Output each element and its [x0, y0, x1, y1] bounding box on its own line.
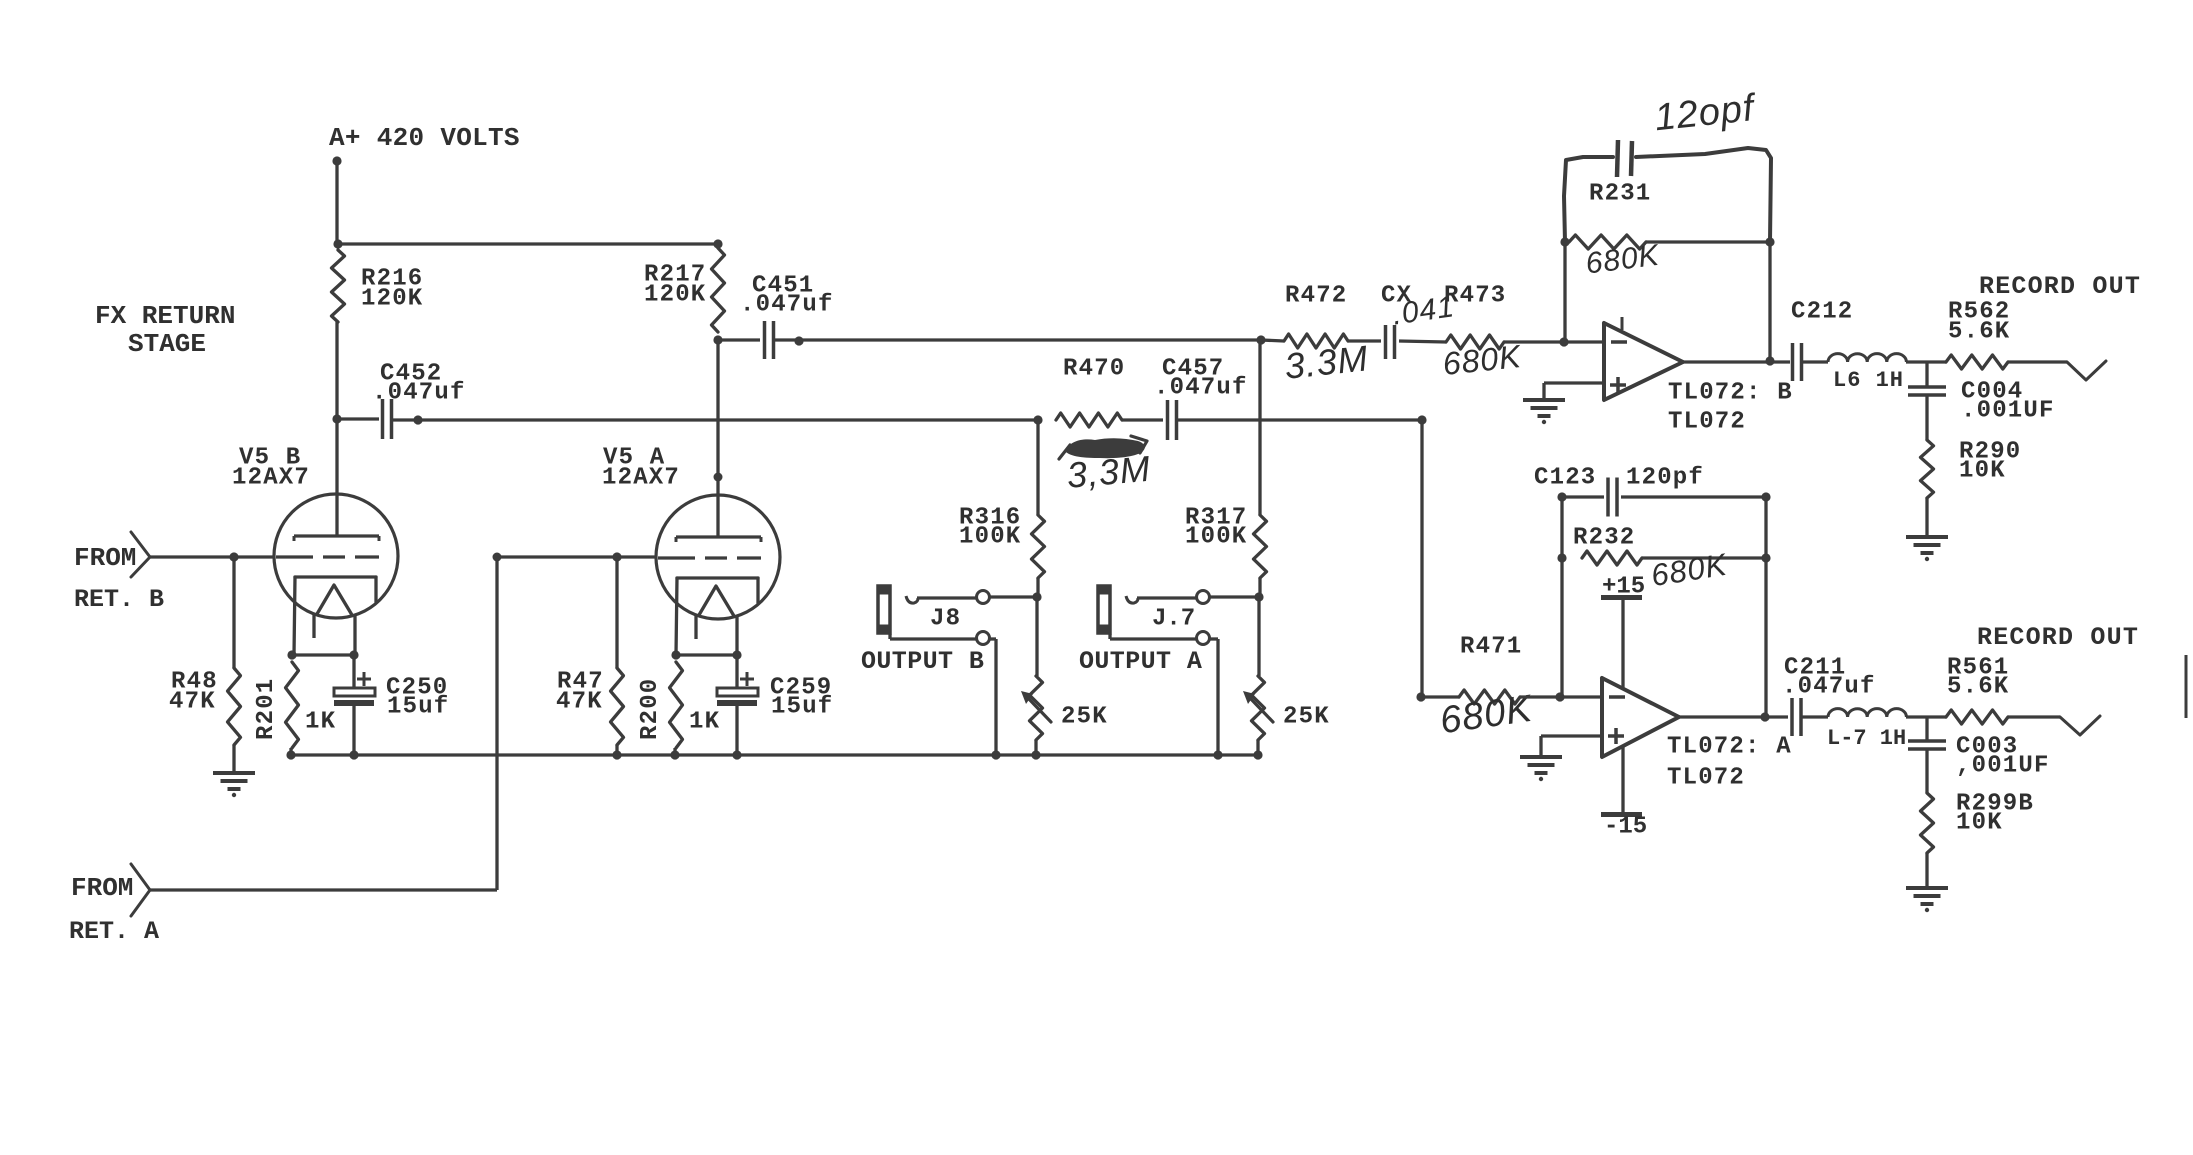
jack J7 sleeve terminal	[1197, 632, 1210, 645]
wire J7 sleeve lower	[1110, 634, 1196, 639]
svg-text:J.7: J.7	[1152, 606, 1195, 633]
capacitor C259	[717, 688, 758, 706]
svg-text:FROM: FROM	[71, 873, 133, 903]
junction dot C250 bus	[349, 750, 358, 759]
junction dot R201 bus	[286, 750, 295, 759]
wire RET A to grid	[497, 555, 656, 558]
label R216	[361, 266, 423, 293]
wire L6 to R562	[1906, 360, 1946, 363]
svg-text:TL072: TL072	[1667, 765, 1745, 792]
capacitor C250	[334, 688, 375, 706]
wire R562 to record out	[2008, 360, 2067, 363]
capacitor C004	[1908, 387, 1946, 395]
handwritten 680K under R231	[1584, 239, 1663, 281]
resistor R317	[1254, 515, 1267, 578]
label C259	[770, 675, 832, 702]
junction dot R200 bus	[670, 750, 679, 759]
op-amp U2 triangle	[1602, 678, 1679, 757]
svg-text:R231: R231	[1589, 181, 1651, 208]
handwritten .041 above CX	[1390, 290, 1456, 331]
handwritten 3,3M under scribble	[1065, 448, 1152, 496]
junction dot J7 tip	[1254, 592, 1263, 601]
jack J7 tip terminal	[1197, 591, 1210, 604]
wire plate supply rail	[338, 242, 718, 245]
wire R200 to bus	[673, 748, 676, 755]
label C211 value .047uf	[1782, 674, 1876, 701]
jack J8 sleeve rectangle	[877, 585, 892, 635]
pot B wiper arrow	[1021, 691, 1051, 722]
resistor R290	[1921, 440, 1934, 498]
label V5 B	[239, 445, 301, 472]
label L-7 1H	[1827, 726, 1906, 751]
capacitor C259 plus sign	[740, 672, 754, 686]
wire R299B to ground	[1925, 853, 1928, 887]
junction dot V5A plate / C451	[713, 335, 722, 344]
label C211	[1784, 655, 1846, 682]
input RET. B chevron	[131, 532, 150, 577]
label R317 value 100K	[1185, 524, 1247, 551]
label R290 value 10K	[1959, 458, 2006, 485]
wire down to R471	[1420, 420, 1423, 697]
svg-text:RET. A: RET. A	[69, 917, 159, 946]
svg-text:25K: 25K	[1061, 704, 1108, 731]
record out connector chevron lower	[2060, 716, 2100, 735]
label R290	[1959, 439, 2021, 466]
svg-text:C123: C123	[1534, 465, 1596, 492]
label R216 value 120K	[361, 286, 423, 313]
jack J8 tip terminal	[977, 591, 990, 604]
label 25K A	[1283, 704, 1330, 731]
resistor R470	[1056, 413, 1122, 427]
label R200 vertical	[637, 678, 664, 740]
svg-text:12AX7: 12AX7	[232, 465, 310, 492]
wire R317 top	[1258, 340, 1261, 515]
scan artifact right edge	[2185, 655, 2188, 718]
handwritten 680K under R473	[1441, 338, 1524, 382]
svg-text:R470: R470	[1063, 356, 1125, 383]
label RECORD OUT upper	[1979, 272, 2141, 301]
label R232	[1573, 525, 1635, 552]
inductor L6	[1828, 354, 1906, 362]
wire R470 to C457	[1122, 418, 1163, 421]
wire RET B to grid	[150, 555, 274, 558]
wire J7 node down to pot	[1257, 597, 1260, 676]
wire U2 plus input	[1541, 736, 1602, 757]
op-amp U1 triangle	[1604, 323, 1683, 400]
junction dot J7 ground bus	[1213, 750, 1222, 759]
junction dot R48 top	[229, 552, 238, 561]
junction dot R316 branch / R470	[1033, 415, 1042, 424]
junction dot R201 top	[287, 650, 296, 659]
resistor R471	[1459, 690, 1520, 704]
wire C250 to bus	[352, 706, 355, 755]
label J8	[930, 606, 961, 633]
jack J8 sleeve terminal	[977, 632, 990, 645]
pot A wiper arrow	[1243, 691, 1273, 722]
label C259 value 15uf	[771, 694, 833, 721]
junction dot pot A bus	[1253, 750, 1262, 759]
label U1 TL072	[1668, 409, 1746, 436]
label R217 value 120K	[644, 282, 706, 309]
potentiometer 25K A	[1252, 676, 1265, 740]
svg-text:100K: 100K	[959, 524, 1021, 551]
junction dot R471 left corner	[1416, 692, 1425, 701]
tube V5A heater pin left	[694, 615, 697, 639]
label TL072:B	[1668, 380, 1793, 407]
wire to R472	[1261, 340, 1284, 341]
svg-text:TL072: B: TL072: B	[1668, 380, 1793, 407]
wire R290 to ground	[1925, 498, 1928, 536]
label R200 value 1K	[689, 709, 720, 736]
svg-text:120K: 120K	[361, 286, 423, 313]
ground R48	[213, 773, 255, 797]
junction dot R231 left	[1560, 237, 1569, 246]
label R316	[959, 505, 1021, 532]
label C457	[1162, 356, 1224, 383]
wire U2 to -15	[1621, 747, 1624, 812]
label C452 value .047uf	[372, 380, 466, 407]
wire R47 top	[615, 557, 618, 668]
svg-text:47K: 47K	[556, 689, 603, 716]
wire C211 to L7	[1801, 715, 1828, 718]
scribbled-out value blob	[1059, 436, 1147, 459]
label R47 value 47K	[556, 689, 603, 716]
label R561 value 5.6K	[1947, 674, 2009, 701]
op-amp U2 plus symbol	[1608, 728, 1624, 744]
capacitor C457	[1168, 400, 1177, 440]
svg-text:OUTPUT A: OUTPUT A	[1079, 647, 1202, 676]
resistor R299B	[1921, 793, 1934, 853]
svg-text:C212: C212	[1791, 299, 1853, 326]
svg-text:STAGE: STAGE	[128, 329, 206, 359]
junction dot C250 top	[349, 650, 358, 659]
svg-text:.047uf: .047uf	[1154, 375, 1248, 402]
label R562 value 5.6K	[1948, 319, 2010, 346]
junction dot V5B plate / C452	[332, 414, 341, 423]
label CX	[1381, 283, 1412, 310]
wire J8 tip contact	[917, 596, 976, 599]
wire R472 to CX	[1348, 339, 1381, 342]
svg-text:100K: 100K	[1185, 524, 1247, 551]
ground R299B	[1906, 888, 1948, 912]
input RET. A chevron	[131, 864, 150, 916]
potentiometer 25K B	[1030, 676, 1043, 740]
wire L7 to R561	[1906, 715, 1946, 718]
label C451	[752, 273, 814, 300]
svg-text:TL072: TL072	[1668, 409, 1746, 436]
tube V5B grid dashes	[276, 555, 379, 558]
wire cathode node A	[676, 653, 737, 656]
junction dot C123 right	[1761, 492, 1770, 501]
tube V5B plate	[294, 536, 379, 541]
wire R561 to record out	[2008, 715, 2060, 718]
node A+ 420 VOLTS label	[329, 123, 520, 153]
label +15	[1601, 574, 1645, 601]
svg-text:RET. B: RET. B	[74, 585, 164, 614]
label R231	[1589, 181, 1651, 208]
resistor R472	[1284, 334, 1348, 348]
wire RET A vertical	[495, 557, 498, 890]
resistor R201	[286, 662, 299, 748]
wire J8 sleeve to ground bus	[990, 639, 996, 755]
wire C123 top left	[1562, 495, 1604, 498]
jack J7 switch hook	[1126, 596, 1138, 603]
svg-text:R472: R472	[1285, 283, 1347, 310]
label STAGE	[128, 329, 206, 359]
wire U2 feedback left vertical	[1560, 497, 1563, 697]
wire C212 to L6	[1802, 360, 1828, 363]
handwritten 680K under R471	[1437, 688, 1535, 743]
resistor R217	[712, 248, 725, 332]
svg-text:.047uf: .047uf	[1782, 674, 1876, 701]
wire cathode node B	[292, 653, 354, 656]
svg-text:-15: -15	[1604, 814, 1647, 841]
capacitor C452	[383, 399, 392, 439]
resistor R316	[1032, 515, 1045, 578]
label J.7	[1152, 606, 1195, 633]
tube V5A plate lead	[716, 340, 719, 537]
inductor L-7	[1828, 709, 1906, 717]
wire C003 to R299B	[1925, 749, 1928, 793]
tube V5A heater pin right	[735, 616, 738, 655]
wire corner to R471	[1421, 695, 1459, 698]
label R47	[557, 669, 604, 696]
record out connector chevron upper	[2067, 361, 2106, 380]
label R48 value 47K	[169, 689, 216, 716]
label OUTPUT B	[861, 647, 984, 676]
capacitor C003	[1908, 741, 1946, 749]
handwritten label 12opf	[1653, 87, 1759, 139]
svg-text:L6 1H: L6 1H	[1833, 368, 1904, 393]
wire R471 to U2 minus	[1520, 695, 1602, 698]
junction dot R231 right	[1765, 237, 1774, 246]
resistor R473	[1446, 335, 1504, 349]
handwritten 680K right of +15	[1649, 547, 1730, 594]
junction dot R200 top	[671, 650, 680, 659]
label R562	[1948, 299, 2010, 326]
op-amp U2 minus symbol	[1609, 695, 1625, 699]
wire to C451	[718, 338, 760, 341]
label C212	[1791, 299, 1853, 326]
svg-text:FX RETURN: FX RETURN	[95, 301, 235, 331]
wire to C004	[1925, 362, 1928, 387]
wire pot B to bus	[1034, 740, 1037, 755]
wire U1 output	[1683, 360, 1790, 363]
capacitor CX	[1386, 325, 1395, 359]
label C004 value .001UF	[1961, 398, 2055, 425]
label R561	[1947, 655, 2009, 682]
handwritten capacitor 12opf plates	[1617, 140, 1632, 177]
label C123	[1534, 465, 1596, 492]
junction dot after C451	[794, 336, 803, 345]
wire J8 node down to pot	[1035, 597, 1038, 676]
tube V5B cathode	[294, 577, 376, 655]
junction dot corner above R471	[1417, 415, 1426, 424]
handwritten capacitor 12opf loop left	[1564, 157, 1613, 242]
capacitor C211	[1792, 698, 1801, 736]
handwritten wire 12opf right	[1636, 148, 1771, 242]
label RET. A	[69, 917, 159, 946]
svg-text:12AX7: 12AX7	[602, 465, 680, 492]
svg-text:1K: 1K	[305, 709, 336, 736]
label C457 value .047uf	[1154, 375, 1248, 402]
wire U2 output	[1679, 715, 1788, 718]
ground R290	[1906, 537, 1948, 561]
op-amp U1 minus symbol	[1611, 340, 1627, 344]
wire R316 to J8 node	[1036, 578, 1039, 597]
wire U2 feedback right vertical	[1764, 497, 1767, 717]
junction dot R47 bus	[612, 750, 621, 759]
label C250	[386, 675, 448, 702]
svg-text:15uf: 15uf	[771, 694, 833, 721]
junction dot J8 ground bus	[991, 750, 1000, 759]
wire C123 top right	[1621, 495, 1766, 498]
svg-text:FROM: FROM	[74, 543, 136, 573]
label RET. B	[74, 585, 164, 614]
wire J7 tip contact	[1137, 596, 1196, 599]
junction dot plate rail left	[333, 239, 342, 248]
svg-text:RECORD OUT: RECORD OUT	[1977, 623, 2139, 652]
wire RET A horizontal	[150, 888, 497, 891]
svg-text:5.6K: 5.6K	[1947, 674, 2009, 701]
resistor R200	[670, 662, 683, 748]
wire to C003	[1925, 717, 1928, 741]
svg-text:R232: R232	[1573, 525, 1635, 552]
wire C250 top lead	[352, 655, 355, 688]
wire pot A to bus	[1256, 740, 1259, 755]
svg-text:RECORD OUT: RECORD OUT	[1979, 272, 2141, 301]
wire R473 to op-amp U1 minus	[1504, 340, 1604, 343]
label C452	[380, 361, 442, 388]
junction dot plate rail right	[713, 239, 722, 248]
op-amp U1 supply stub	[1621, 317, 1624, 330]
svg-text:R200: R200	[637, 678, 664, 740]
wire C451 to R472 node	[774, 338, 1261, 341]
tube V5B heater pin left	[312, 614, 315, 638]
wire J7 tip to R317	[1210, 595, 1259, 598]
svg-text:3.3M: 3.3M	[1283, 337, 1371, 387]
resistor R562	[1946, 355, 2008, 369]
svg-text:120pf: 120pf	[1626, 465, 1704, 492]
junction dot U2 output feedback	[1760, 712, 1769, 721]
label -15	[1601, 812, 1647, 841]
tube V5B plate lead	[335, 419, 338, 536]
wire J8 sleeve lower	[890, 634, 976, 639]
junction dot V5A plate lead	[714, 473, 723, 482]
wire feedback left vertical	[1563, 242, 1566, 342]
label R48	[171, 669, 218, 696]
resistor R232	[1582, 551, 1642, 565]
label OUTPUT A	[1079, 647, 1202, 676]
wire R47 to bus	[615, 745, 618, 755]
capacitor C123	[1608, 478, 1617, 517]
tube V5A cathode	[676, 578, 758, 655]
junction dot C259 bus	[732, 750, 741, 759]
label C451 value .047uf	[740, 292, 834, 319]
wire J7 sleeve to ground bus	[1210, 639, 1218, 755]
svg-text:R201: R201	[253, 678, 280, 740]
label R299B	[1956, 791, 2034, 818]
wire R48 top	[232, 557, 235, 668]
label R217	[644, 262, 706, 289]
wire C004 to R290	[1925, 395, 1928, 440]
svg-text:10K: 10K	[1959, 458, 2006, 485]
wire A+ down	[335, 161, 338, 244]
resistor R47	[611, 668, 624, 745]
label C004	[1961, 379, 2023, 406]
wire R316 top	[1036, 420, 1039, 515]
tube V5A envelope	[656, 495, 780, 619]
wire C452 long to R470 node	[392, 418, 1038, 421]
svg-text:R473: R473	[1444, 283, 1506, 310]
wire J8 tip to R316	[990, 595, 1037, 598]
label R201 vertical	[253, 678, 280, 740]
svg-text:3,3M: 3,3M	[1065, 448, 1152, 496]
wire CX to R473	[1399, 341, 1446, 342]
svg-text:.047uf: .047uf	[372, 380, 466, 407]
resistor R561	[1946, 710, 2008, 724]
jack J8 switch hook	[906, 596, 918, 603]
tube V5B heater pin right	[353, 615, 356, 655]
svg-text:,001UF: ,001UF	[1956, 753, 2050, 780]
svg-text:120K: 120K	[644, 282, 706, 309]
label V5B 12AX7	[232, 465, 310, 492]
junction dot R232 right	[1761, 553, 1770, 562]
wire C259 to bus	[735, 706, 738, 755]
junction dot J8 tip	[1032, 592, 1041, 601]
svg-text:A+ 420 VOLTS: A+ 420 VOLTS	[329, 123, 520, 153]
junction dot U1 inverting node	[1559, 337, 1568, 346]
label R316 value 100K	[959, 524, 1021, 551]
ground U1 plus	[1523, 400, 1565, 424]
label R473	[1444, 283, 1506, 310]
label C003	[1956, 734, 2018, 761]
svg-text:R471: R471	[1460, 634, 1522, 661]
label RECORD OUT lower	[1977, 623, 2139, 652]
wire R231 to right vertical	[1646, 240, 1770, 243]
label R201 value 1K	[305, 709, 336, 736]
tube V5A grid dashes	[658, 556, 761, 559]
capacitor C250 plus sign	[357, 672, 371, 686]
svg-text:OUTPUT B: OUTPUT B	[861, 647, 984, 676]
label L6 1H	[1833, 368, 1904, 393]
wire R201 to bus	[289, 748, 292, 755]
junction dot RET A corner	[493, 553, 502, 562]
label FROM upper	[74, 543, 136, 573]
junction dot U1 output feedback	[1765, 356, 1774, 365]
capacitor C451	[765, 321, 774, 359]
node A+ terminal dot	[332, 156, 341, 165]
wire +15 to U2	[1621, 600, 1624, 688]
wire U1 plus input	[1544, 383, 1604, 400]
tube V5A plate	[676, 537, 761, 542]
svg-text:J8: J8	[930, 606, 961, 633]
svg-text:47K: 47K	[169, 689, 216, 716]
junction dot pot B bus	[1031, 750, 1040, 759]
junction dot U2 inverting node	[1555, 692, 1564, 701]
label FX RETURN	[95, 301, 235, 331]
svg-text:.001UF: .001UF	[1961, 398, 2055, 425]
label 25K B	[1061, 704, 1108, 731]
label V5 A	[603, 445, 665, 472]
wire R232 to right	[1642, 556, 1766, 559]
junction dot C123 left	[1557, 492, 1566, 501]
svg-text:25K: 25K	[1283, 704, 1330, 731]
label R472	[1285, 283, 1347, 310]
svg-text:.047uf: .047uf	[740, 292, 834, 319]
svg-text:15uf: 15uf	[387, 694, 449, 721]
handwritten 3.3M under R472	[1283, 337, 1371, 387]
